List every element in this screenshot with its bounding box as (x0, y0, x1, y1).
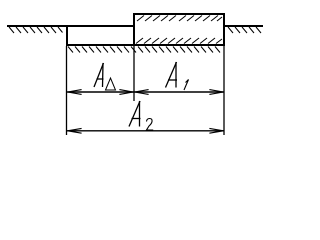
extension lines (66, 46, 68, 135)
hatching under right surface (228, 27, 261, 33)
wall surface line right (225, 25, 263, 27)
label A_1 (166, 62, 189, 90)
part interior hatch bottom (136, 38, 222, 44)
dimension line A_2 (67, 130, 224, 132)
arrowheads (open) (68, 90, 224, 134)
label A_2 (129, 101, 153, 130)
A_2 right arrow (209, 128, 223, 130)
hatching under left surface (9, 27, 63, 33)
label A_delta (94, 63, 116, 90)
A_2 left arrow (68, 128, 82, 130)
wall surface line left (7, 25, 135, 27)
gap left edge (66, 25, 68, 46)
hatching under base line (68, 47, 220, 53)
part rectangle (134, 14, 224, 45)
dimension line A_delta (67, 91, 134, 93)
A_1 right arrow (209, 90, 223, 92)
dimension line A_1 (134, 91, 224, 93)
A_1 left arrow (135, 90, 149, 92)
base bottom line (66, 44, 225, 46)
A_delta right arrow (119, 90, 133, 92)
part interior hatch top (137, 16, 222, 22)
A_delta left arrow (68, 90, 82, 92)
